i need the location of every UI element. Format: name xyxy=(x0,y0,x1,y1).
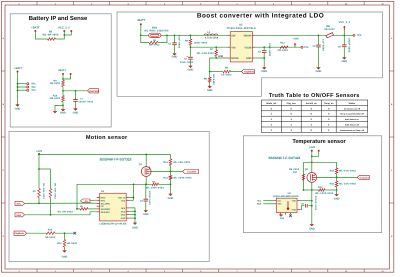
svg-text:1M-0402: 1M-0402 xyxy=(289,168,300,171)
svg-text:Motion sensor: Motion sensor xyxy=(86,134,128,141)
svg-text:WL-100K-0402: WL-100K-0402 xyxy=(173,177,192,180)
svg-text:VBATSNS: VBATSNS xyxy=(89,90,100,93)
svg-text:+3V0: +3V0 xyxy=(309,146,316,149)
svg-text:GND: GND xyxy=(341,60,347,63)
svg-text:300K-0402: 300K-0402 xyxy=(194,42,208,45)
svg-text:0: 0 xyxy=(328,113,330,116)
svg-text:R5: R5 xyxy=(80,205,84,208)
svg-text:SDA: SDA xyxy=(257,203,262,206)
svg-text:Temperature sensor: Temperature sensor xyxy=(292,139,346,145)
svg-text:All sensors are off: All sensors are off xyxy=(344,107,360,110)
svg-text:GND: GND xyxy=(309,227,315,230)
svg-text:C2: C2 xyxy=(184,57,188,60)
svg-text:Truth Table to ON/OFF Sensors: Truth Table to ON/OFF Sensors xyxy=(269,92,360,99)
svg-text:1: 1 xyxy=(271,118,273,121)
svg-text:C4: C4 xyxy=(312,45,316,48)
svg-text:SDA: SDA xyxy=(16,214,21,217)
svg-text:C1: C1 xyxy=(168,43,172,46)
svg-text:Mode_sel: Mode_sel xyxy=(266,102,276,105)
svg-text:1: 1 xyxy=(311,124,313,127)
svg-text:Battery IP and Sense: Battery IP and Sense xyxy=(29,15,88,22)
svg-text:0: 0 xyxy=(311,113,313,116)
svg-text:WL-10K-0402: WL-10K-0402 xyxy=(339,182,356,185)
svg-text:CS: CS xyxy=(85,200,89,203)
svg-text:C3: C3 xyxy=(140,200,144,203)
svg-text:0: 0 xyxy=(311,118,313,121)
svg-text:1R-0402: 1R-0402 xyxy=(221,73,232,76)
svg-text:10uF-0402: 10uF-0402 xyxy=(177,35,180,49)
svg-text:TP3: TP3 xyxy=(31,89,36,92)
svg-text:GND: GND xyxy=(316,70,322,73)
svg-text:0: 0 xyxy=(311,129,313,132)
svg-text:VDD: VDD xyxy=(292,200,297,203)
svg-text:SCL: SCL xyxy=(17,202,22,205)
svg-text:0: 0 xyxy=(291,107,293,110)
svg-text:INT1: INT1 xyxy=(101,199,107,202)
svg-text:Boost converter with Integrate: Boost converter with Integrated LDO xyxy=(197,13,324,20)
svg-text:L1: L1 xyxy=(208,31,212,34)
svg-text:GND: GND xyxy=(207,89,213,92)
svg-text:VDD_IO: VDD_IO xyxy=(118,197,126,200)
svg-text:GND: GND xyxy=(121,210,126,213)
svg-text:LIS2DH12TR-12-VFLGA: LIS2DH12TR-12-VFLGA xyxy=(99,223,126,226)
svg-text:GND: GND xyxy=(143,213,149,216)
svg-text:WL-10K-0402: WL-10K-0402 xyxy=(173,161,190,164)
svg-text:VMAIN: VMAIN xyxy=(243,34,251,37)
svg-text:GND: GND xyxy=(168,197,174,200)
svg-text:Both Sensor off: Both Sensor off xyxy=(345,124,359,127)
svg-text:VDD: VDD xyxy=(121,199,126,202)
svg-text:C5: C5 xyxy=(258,51,262,54)
svg-text:C: C xyxy=(391,169,393,172)
svg-text:GND: GND xyxy=(334,197,340,200)
svg-text:R12: R12 xyxy=(280,41,285,44)
svg-text:+BATT: +BATT xyxy=(137,19,146,22)
svg-text:R16: R16 xyxy=(330,182,335,185)
svg-text:WL-0R-0402: WL-0R-0402 xyxy=(58,210,74,213)
svg-text:Status: Status xyxy=(349,102,356,105)
svg-text:VIN: VIN xyxy=(231,46,235,49)
svg-text:1uF-0402: 1uF-0402 xyxy=(322,39,325,51)
svg-text:1: 1 xyxy=(291,129,293,132)
svg-text:AccelInt: AccelInt xyxy=(187,171,196,174)
svg-text:GND: GND xyxy=(261,70,267,73)
svg-text:4.7uH-1208: 4.7uH-1208 xyxy=(205,37,219,40)
svg-text:C6: C6 xyxy=(301,202,305,205)
svg-text:R6: R6 xyxy=(204,77,208,80)
svg-text:R4: R4 xyxy=(185,40,189,43)
svg-text:Accelerometer on,Temp off: Accelerometer on,Temp off xyxy=(340,129,365,132)
svg-text:GND: GND xyxy=(188,68,194,71)
svg-text:R7: R7 xyxy=(210,48,214,51)
svg-text:SW: SW xyxy=(231,34,236,37)
svg-text:GND: GND xyxy=(73,112,79,115)
svg-text:10uF-0402: 10uF-0402 xyxy=(180,61,194,64)
svg-text:WL-0R-0603: WL-0R-0603 xyxy=(42,33,59,36)
svg-text:VSUB: VSUB xyxy=(244,46,251,49)
svg-text:Accmh_en: Accmh_en xyxy=(306,102,318,105)
svg-text:BSS84W-7-F-SOT323: BSS84W-7-F-SOT323 xyxy=(100,158,132,162)
svg-text:SA0/SDO: SA0/SDO xyxy=(101,208,111,211)
svg-text:100nF-0402: 100nF-0402 xyxy=(78,100,93,103)
svg-text:0R-0402: 0R-0402 xyxy=(149,44,160,47)
svg-text:1: 1 xyxy=(291,124,293,127)
svg-text:B: B xyxy=(391,103,393,106)
svg-text:100nF-0402: 100nF-0402 xyxy=(348,38,351,53)
svg-text:100nF-0402: 100nF-0402 xyxy=(148,191,151,206)
svg-text:GND: GND xyxy=(280,217,285,220)
svg-text:1: 1 xyxy=(328,129,330,132)
svg-text:SCL/SPC: SCL/SPC xyxy=(101,202,111,205)
svg-text:WL-10K-0402: WL-10K-0402 xyxy=(339,169,356,172)
svg-text:TPS610981-WSON-6: TPS610981-WSON-6 xyxy=(226,27,256,30)
svg-text:ChgMont: ChgMont xyxy=(244,71,254,74)
svg-text:1: 1 xyxy=(271,129,273,132)
svg-text:Temp on,accelerometer off: Temp on,accelerometer off xyxy=(340,113,364,116)
svg-text:0: 0 xyxy=(311,107,313,110)
svg-text:R3: R3 xyxy=(33,190,37,193)
svg-text:0: 0 xyxy=(328,118,330,121)
svg-text:100nF-0402: 100nF-0402 xyxy=(314,196,317,211)
svg-text:RES: RES xyxy=(121,207,126,210)
svg-text:0R-0402: 0R-0402 xyxy=(324,28,335,31)
svg-text:1: 1 xyxy=(271,124,273,127)
svg-text:R15: R15 xyxy=(330,169,335,172)
svg-text:A: A xyxy=(3,37,5,40)
svg-text:Both Sensor on: Both Sensor on xyxy=(345,118,360,121)
svg-text:0: 0 xyxy=(271,107,273,110)
svg-text:WL-1000-0402: WL-1000-0402 xyxy=(146,186,165,189)
svg-text:VCC_3_3: VCC_3_3 xyxy=(339,21,351,24)
svg-text:MODE: MODE xyxy=(231,57,239,60)
svg-text:R8: R8 xyxy=(225,66,229,69)
svg-text:GND: GND xyxy=(132,226,138,229)
svg-text:B: B xyxy=(3,103,5,106)
svg-text:TP5: TP5 xyxy=(357,34,362,37)
svg-text:CS: CS xyxy=(101,205,105,208)
svg-text:0: 0 xyxy=(291,113,293,116)
svg-text:Temp_en: Temp_en xyxy=(324,102,334,105)
svg-text:D: D xyxy=(3,235,5,238)
svg-text:1M-0402: 1M-0402 xyxy=(212,74,215,85)
svg-text:ChgMode: ChgMode xyxy=(14,232,24,235)
svg-text:A: A xyxy=(391,37,393,40)
svg-text:+BATT: +BATT xyxy=(31,27,40,30)
svg-text:1: 1 xyxy=(271,113,273,116)
svg-text:Q1: Q1 xyxy=(139,163,143,166)
svg-text:VCC_3_3: VCC_3_3 xyxy=(58,26,70,29)
svg-text:SCL: SCL xyxy=(257,200,262,203)
svg-text:1M-0402: 1M-0402 xyxy=(67,242,78,245)
svg-text:R3: R3 xyxy=(153,39,157,42)
svg-text:R14: R14 xyxy=(318,186,323,189)
svg-text:D: D xyxy=(391,235,393,238)
svg-text:10uF-0402: 10uF-0402 xyxy=(268,43,271,57)
svg-text:R13: R13 xyxy=(163,161,168,164)
svg-text:SDA/SDI: SDA/SDI xyxy=(101,211,110,214)
svg-text:1M-0402: 1M-0402 xyxy=(49,97,60,100)
svg-text:C8: C8 xyxy=(338,46,342,49)
svg-text:+BATT: +BATT xyxy=(14,67,23,70)
svg-text:1: 1 xyxy=(328,124,330,127)
svg-text:LPM: LPM xyxy=(218,55,223,58)
svg-text:R15: R15 xyxy=(48,228,53,231)
svg-text:WL-PMC-142N7H0: WL-PMC-142N7H0 xyxy=(144,30,169,33)
svg-text:G7501-A25-SMD-8-DFN: G7501-A25-SMD-8-DFN xyxy=(273,195,299,198)
svg-text:0R-0402: 0R-0402 xyxy=(45,236,56,239)
svg-text:WL-1000-0402: WL-1000-0402 xyxy=(315,192,334,195)
svg-text:BSS84W-7-F-SOT323: BSS84W-7-F-SOT323 xyxy=(268,156,300,160)
svg-text:WL-10K-0402: WL-10K-0402 xyxy=(42,183,45,199)
svg-text:R12: R12 xyxy=(57,242,62,245)
svg-text:Chg_sen: Chg_sen xyxy=(287,102,297,105)
svg-text:1M-0402: 1M-0402 xyxy=(49,82,60,85)
svg-text:WL-19R-0402: WL-19R-0402 xyxy=(197,52,214,55)
svg-text:0R-0402: 0R-0402 xyxy=(278,49,289,52)
svg-text:GND: GND xyxy=(121,217,126,220)
svg-text:GND: GND xyxy=(15,108,21,111)
svg-text:SDA: SDA xyxy=(277,203,282,206)
svg-text:WL-10K-0402: WL-10K-0402 xyxy=(54,183,57,199)
svg-text:+3V0: +3V0 xyxy=(36,150,43,153)
svg-text:C: C xyxy=(3,169,5,172)
svg-text:TempAlert: TempAlert xyxy=(359,176,369,179)
svg-text:+BATT: +BATT xyxy=(58,69,67,72)
svg-text:TP4: TP4 xyxy=(304,46,309,49)
svg-text:R17: R17 xyxy=(293,171,298,174)
svg-text:GND: GND xyxy=(292,209,297,212)
svg-text:R11: R11 xyxy=(164,177,169,180)
svg-text:GND: GND xyxy=(246,57,252,60)
svg-text:GND: GND xyxy=(60,112,66,115)
svg-text:R2: R2 xyxy=(152,181,156,184)
svg-text:0: 0 xyxy=(328,107,330,110)
svg-text:1: 1 xyxy=(291,118,293,121)
svg-text:U3: U3 xyxy=(288,192,292,195)
svg-text:INT2: INT2 xyxy=(101,197,107,200)
svg-text:GND: GND xyxy=(172,56,178,59)
svg-text:U1: U1 xyxy=(101,190,105,193)
svg-text:Q2: Q2 xyxy=(305,168,309,171)
svg-text:GND: GND xyxy=(121,214,126,217)
svg-text:+3V0: +3V0 xyxy=(293,38,300,41)
svg-text:GND: GND xyxy=(62,256,68,259)
